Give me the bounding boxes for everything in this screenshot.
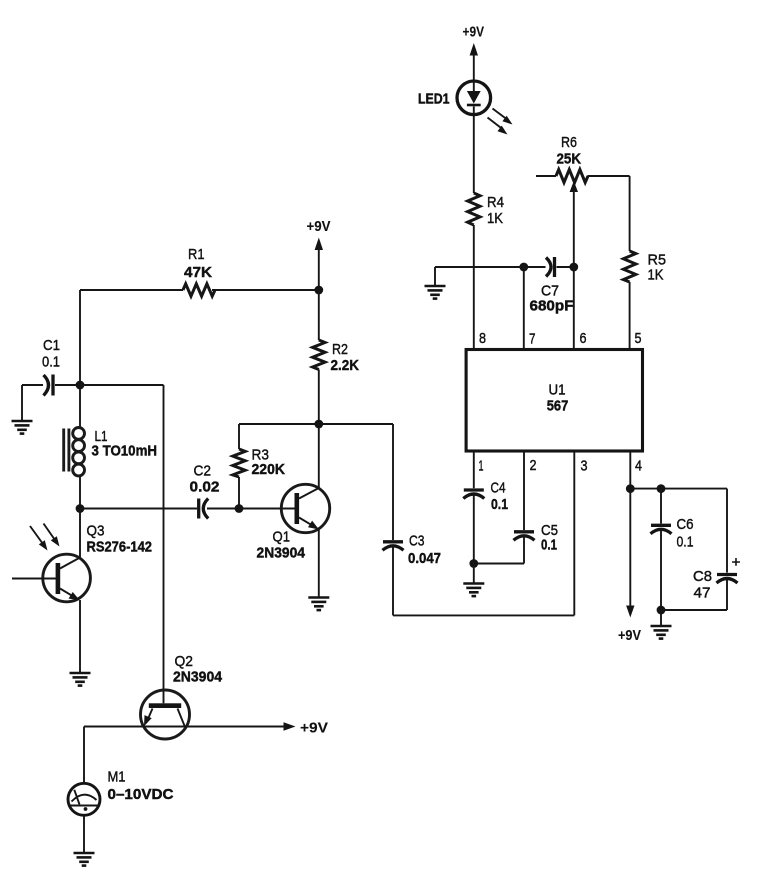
svg-text:Q2: Q2 — [175, 653, 194, 670]
svg-text:25K: 25K — [557, 151, 582, 168]
svg-text:C3: C3 — [409, 533, 425, 550]
ground C6 C8 — [651, 626, 672, 639]
capacitor C6 0.1 — [651, 516, 694, 551]
svg-text:+9V: +9V — [300, 720, 328, 737]
wire R6 to R5 — [629, 176, 631, 251]
svg-text:2.2K: 2.2K — [331, 357, 360, 374]
svg-text:0.047: 0.047 — [408, 550, 441, 567]
svg-text:+: + — [732, 554, 741, 571]
capacitor C2 0.02 — [190, 463, 295, 519]
ground M1 — [74, 853, 95, 866]
node junction L1 C2 Q3 — [76, 504, 197, 513]
meter M1 0-10VDC — [68, 769, 174, 816]
LED LED1 — [418, 81, 513, 135]
wire R3 branch — [238, 424, 240, 509]
svg-text:M1: M1 — [108, 769, 126, 786]
ground C1 — [12, 421, 33, 434]
resistor R1 47K — [183, 246, 215, 296]
wire Q3 emitter to ground — [79, 600, 81, 673]
ground C4 C5 — [463, 584, 484, 597]
node junction pin7 — [519, 263, 528, 272]
wire U1 pin 2 to C5 — [523, 451, 525, 530]
ground Q3 — [70, 673, 91, 686]
svg-text:C6: C6 — [677, 516, 694, 533]
svg-text:U1: U1 — [549, 382, 566, 399]
pin number 7 — [529, 331, 536, 348]
svg-text:2N3904: 2N3904 — [173, 669, 223, 686]
capacitor C5 0.1 — [514, 522, 559, 554]
node +9V mid supply — [307, 218, 331, 290]
svg-text:R1: R1 — [188, 246, 205, 263]
node junction C6 top — [657, 484, 666, 523]
node junction pin6-wiper — [569, 263, 578, 272]
svg-text:680pF: 680pF — [530, 298, 574, 315]
svg-text:1K: 1K — [487, 210, 503, 227]
wire R5 to U1 pin 5 — [629, 282, 631, 350]
pin number 4 — [635, 458, 642, 475]
svg-text:7: 7 — [529, 331, 536, 348]
svg-text:0.1: 0.1 — [677, 534, 694, 551]
wire C6 to bottom node — [660, 530, 662, 610]
svg-text:3: 3 — [581, 458, 588, 475]
svg-text:0.02: 0.02 — [190, 479, 220, 496]
svg-text:RS276-142: RS276-142 — [87, 539, 153, 556]
svg-text:R6: R6 — [561, 134, 577, 151]
wire R4 to U1 pin 8 — [473, 225, 475, 350]
ground C7 left — [425, 286, 446, 299]
svg-text:220K: 220K — [252, 461, 286, 478]
svg-text:5: 5 — [635, 330, 642, 347]
transistor Q3 RS276-142 phototransistor — [12, 523, 152, 602]
wire U1 pin 7 — [523, 267, 525, 350]
capacitor C7 680pF — [530, 257, 574, 315]
svg-text:Q3: Q3 — [87, 523, 105, 540]
wire C4 to ground node — [473, 495, 475, 564]
wire branch down to Q2 base — [163, 385, 165, 703]
wire Q1 collector — [318, 424, 320, 488]
capacitor C4 0.1 — [463, 480, 508, 514]
svg-text:1: 1 — [479, 458, 484, 475]
svg-text:C2: C2 — [194, 463, 212, 480]
node junction C6 bottom ground — [657, 606, 666, 626]
wire R2 to collector node — [318, 370, 320, 425]
svg-text:0–10VDC: 0–10VDC — [108, 786, 174, 803]
svg-text:+9V: +9V — [307, 218, 331, 235]
wire C5 to ground node — [474, 536, 524, 563]
svg-text:47: 47 — [694, 585, 711, 602]
wire U1 pin 3 down and left — [393, 451, 574, 615]
wire Q3 collector — [79, 509, 81, 558]
wire M1 to ground — [83, 815, 85, 852]
inductor L1 3 TO10mH — [64, 385, 157, 509]
svg-text:0.1: 0.1 — [491, 496, 508, 513]
ground Q1 — [308, 598, 329, 611]
capacitor C1 0.1 — [22, 337, 80, 396]
IC U1 567 — [466, 350, 642, 452]
svg-text:C8: C8 — [693, 568, 712, 585]
svg-text:4: 4 — [635, 458, 642, 475]
wire LED to R4 — [473, 115, 475, 194]
node junction R3 C2 — [235, 504, 244, 513]
capacitor C3 0.047 — [383, 533, 442, 568]
transistor Q2 2N3904 — [141, 653, 223, 739]
svg-text:Q1: Q1 — [273, 529, 291, 546]
potentiometer R6 25K — [536, 134, 630, 192]
node junction Q1 collector row — [239, 420, 323, 429]
wire C8 to bottom node — [661, 579, 727, 610]
wire +9V node to R2 — [318, 290, 320, 340]
svg-text:3 TO10mH: 3 TO10mH — [92, 443, 158, 460]
wire Q2 output row to +9V arrow — [84, 720, 328, 737]
svg-text:+9V: +9V — [618, 627, 641, 644]
pin number 8 — [479, 330, 486, 347]
svg-text:47K: 47K — [184, 264, 212, 281]
node junction R1 +9V R2 — [314, 286, 323, 295]
wire C8 branch right side — [726, 489, 728, 573]
svg-text:R4: R4 — [487, 194, 504, 211]
wire R6 wiper to U1 pin 6 — [573, 189, 575, 350]
svg-text:567: 567 — [547, 397, 569, 414]
wire to meter M1 — [83, 727, 85, 784]
wire C3 branch up to Q1 collector node — [319, 424, 393, 615]
wire U1 pin 4 to +9V arrow — [618, 451, 641, 644]
resistor R5 1K — [623, 251, 666, 284]
svg-text:2: 2 — [530, 457, 537, 474]
wire ground stub to pin7 node — [435, 267, 546, 285]
svg-text:2N3904: 2N3904 — [257, 545, 306, 562]
svg-text:8: 8 — [479, 330, 486, 347]
node junction C4 C5 ground — [469, 559, 478, 583]
svg-text:C4: C4 — [491, 480, 506, 497]
node junction C1 L1 — [76, 381, 164, 390]
svg-text:6: 6 — [580, 330, 587, 347]
resistor R3 220K — [233, 447, 285, 479]
node junction pin4 row — [626, 484, 727, 493]
resistor R4 1K — [468, 193, 504, 227]
wire R1 row — [80, 290, 319, 385]
svg-text:1K: 1K — [648, 267, 664, 284]
pin number 3 — [581, 458, 588, 475]
pin number 6 — [580, 330, 587, 347]
wire U1 pin 1 to C4 — [473, 451, 475, 488]
svg-text:R2: R2 — [332, 341, 348, 358]
pin number 5 — [635, 330, 642, 347]
transistor Q1 2N3904 — [257, 484, 330, 561]
svg-text:LED1: LED1 — [418, 91, 450, 108]
svg-text:+9V: +9V — [463, 24, 485, 41]
capacitor C8 47 polarized — [693, 554, 741, 602]
svg-text:0.1: 0.1 — [541, 537, 557, 554]
svg-text:0.1: 0.1 — [42, 354, 60, 371]
pin number 2 — [530, 457, 537, 474]
wire C1 ground stub — [21, 385, 23, 421]
svg-text:C1: C1 — [43, 337, 60, 354]
wire Q1 emitter to ground — [318, 529, 320, 597]
resistor R2 2.2K — [313, 340, 360, 374]
node +9V LED supply — [463, 24, 485, 82]
pin number 1 — [479, 458, 484, 475]
